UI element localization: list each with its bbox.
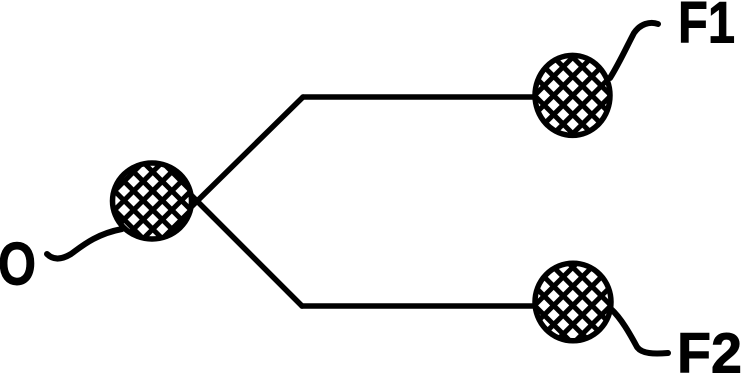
wire: upper branch horizontal to node F1 bbox=[303, 94, 536, 100]
lead squiggle from node F1 up to label F1 bbox=[610, 23, 658, 78]
wire: lower branch diagonal from coupler junction bbox=[187, 191, 302, 306]
label F1 bbox=[678, 0, 735, 56]
input node O: crosshatched circle bbox=[113, 163, 192, 239]
wire: lower branch horizontal to node F2 bbox=[302, 303, 536, 309]
svg-text:F1: F1 bbox=[678, 0, 735, 56]
label F2 bbox=[677, 322, 742, 375]
output node F2: crosshatched circle bbox=[535, 263, 611, 341]
svg-text:F2: F2 bbox=[677, 322, 742, 375]
svg-text:O: O bbox=[0, 231, 36, 298]
lead squiggle from node F2 down to label F2 bbox=[611, 309, 668, 353]
label O bbox=[0, 231, 36, 298]
output node F1: crosshatched circle bbox=[535, 55, 610, 135]
wire: upper branch diagonal from coupler junction bbox=[186, 97, 303, 212]
lead squiggle from label O to input node bbox=[47, 229, 122, 259]
